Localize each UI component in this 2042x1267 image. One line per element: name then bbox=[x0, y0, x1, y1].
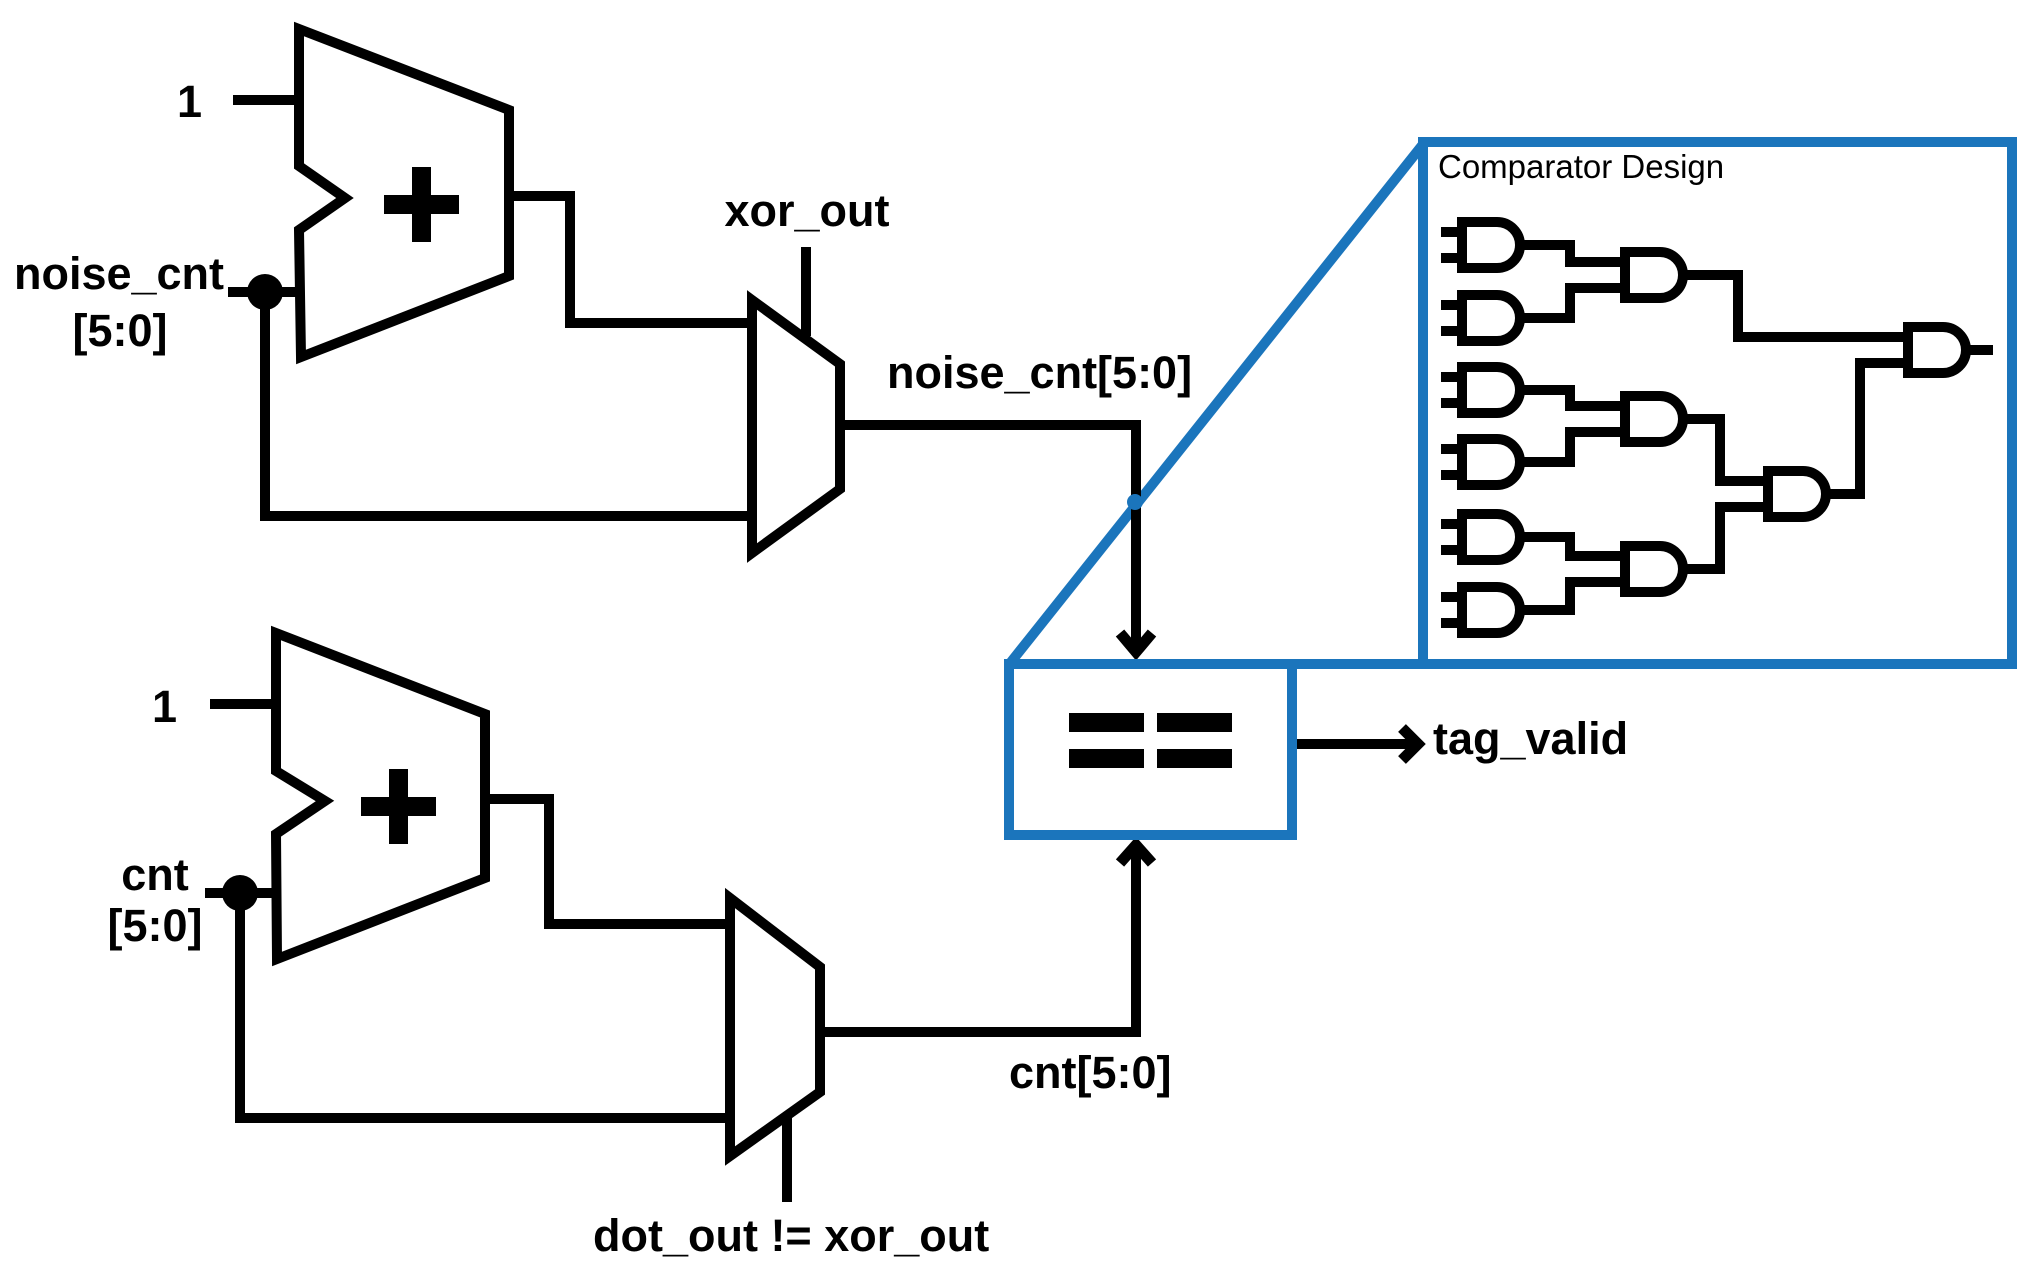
blue zoom diagonal line from == box to Comparator box bbox=[1011, 143, 1424, 662]
AND gate A2 bbox=[1441, 295, 1520, 341]
svg-text:1: 1 bbox=[177, 76, 202, 127]
wire: top mux output noise_cnt[5:0] down to comparator == bbox=[840, 425, 1136, 645]
gate wires: C1 to D1 bbox=[1821, 363, 1913, 494]
wire: dot_out != xor_out select into bottom mux bbox=[782, 1114, 792, 1202]
wire: bottom adder output to bottom mux input 1 bbox=[485, 799, 735, 924]
gate wires: A1 to B1 bbox=[1515, 245, 1630, 262]
gate wires: B1 to D1 bbox=[1678, 275, 1913, 337]
svg-text:[5:0]: [5:0] bbox=[72, 305, 167, 356]
AND gate C1 bbox=[1747, 471, 1826, 517]
svg-text:dot_out != xor_out: dot_out != xor_out bbox=[593, 1210, 989, 1261]
junction node noise_cnt bbox=[247, 274, 283, 310]
plus symbol of adder U2 bbox=[361, 769, 436, 844]
blue node on diagonal bbox=[1127, 494, 1143, 510]
wire: tag_valid output from == box bbox=[1292, 739, 1412, 749]
svg-text:cnt[5:0]: cnt[5:0] bbox=[1009, 1047, 1172, 1098]
AND gate A4 bbox=[1441, 439, 1520, 485]
arrowhead down into == box bbox=[1120, 633, 1152, 652]
AND gate B2 bbox=[1604, 396, 1683, 442]
AND gate B3 bbox=[1604, 546, 1683, 592]
wire: cnt[5:0] into bottom adder bbox=[205, 888, 279, 898]
AND gate A6 bbox=[1441, 587, 1520, 633]
wire: constant 1 into top adder bbox=[233, 95, 302, 105]
svg-text:xor_out: xor_out bbox=[724, 185, 889, 236]
gate wires: A2 to B1 bbox=[1515, 288, 1630, 318]
Comparator Design box bbox=[1423, 142, 2012, 664]
svg-text:cnt: cnt bbox=[121, 849, 189, 900]
gate wires: A4 to B2 bbox=[1515, 432, 1630, 462]
AND gate A3 bbox=[1441, 367, 1520, 413]
gate wires: A3 to B2 bbox=[1515, 390, 1630, 406]
AND gate D1 bbox=[1887, 327, 1966, 373]
gate wires: A5 to B3 bbox=[1515, 537, 1630, 556]
adder U2 (bottom) bbox=[276, 633, 485, 959]
plus symbol of adder U1 bbox=[384, 167, 459, 242]
AND gate B1 bbox=[1604, 252, 1683, 298]
blue bridge segment (comparator box bottom edge extension to == box corner) bbox=[1290, 659, 1430, 669]
wire: constant 1 into bottom adder bbox=[210, 699, 279, 709]
gate wires: B3 to C1 bbox=[1678, 507, 1773, 569]
svg-text:noise_cnt[5:0]: noise_cnt[5:0] bbox=[887, 347, 1192, 398]
wire: noise_cnt[5:0] into top adder bbox=[228, 287, 302, 297]
comparator == box bbox=[1009, 664, 1292, 835]
svg-text:1: 1 bbox=[152, 681, 177, 732]
svg-text:[5:0]: [5:0] bbox=[107, 900, 202, 951]
gate wires: A6 to B3 bbox=[1515, 582, 1630, 610]
svg-text:Comparator Design: Comparator Design bbox=[1438, 148, 1724, 185]
gate wire: D1 output stub bbox=[1960, 345, 1993, 355]
AND gate A1 bbox=[1441, 222, 1520, 268]
mux M1 (top) bbox=[752, 300, 840, 553]
mux M2 (bottom) bbox=[730, 898, 820, 1156]
wire: bottom mux output cnt[5:0] up to comparator == bbox=[820, 852, 1136, 1032]
arrowhead up into == box bbox=[1120, 845, 1152, 863]
wire: top adder output to top mux input 1 bbox=[509, 196, 757, 323]
wire: noise_cnt feedback to top mux input 0 bbox=[265, 292, 757, 516]
arrowhead right tag_valid bbox=[1402, 728, 1418, 760]
adder U1 (top) bbox=[299, 29, 509, 357]
svg-text:tag_valid: tag_valid bbox=[1433, 713, 1628, 764]
svg-text:noise_cnt: noise_cnt bbox=[14, 248, 224, 299]
gate wires: B2 to C1 bbox=[1678, 419, 1773, 481]
wire: xor_out select into top mux bbox=[801, 247, 811, 336]
junction node cnt bbox=[222, 875, 258, 911]
wire: cnt feedback to bottom mux input 0 bbox=[240, 893, 735, 1118]
AND gate A5 bbox=[1441, 514, 1520, 560]
